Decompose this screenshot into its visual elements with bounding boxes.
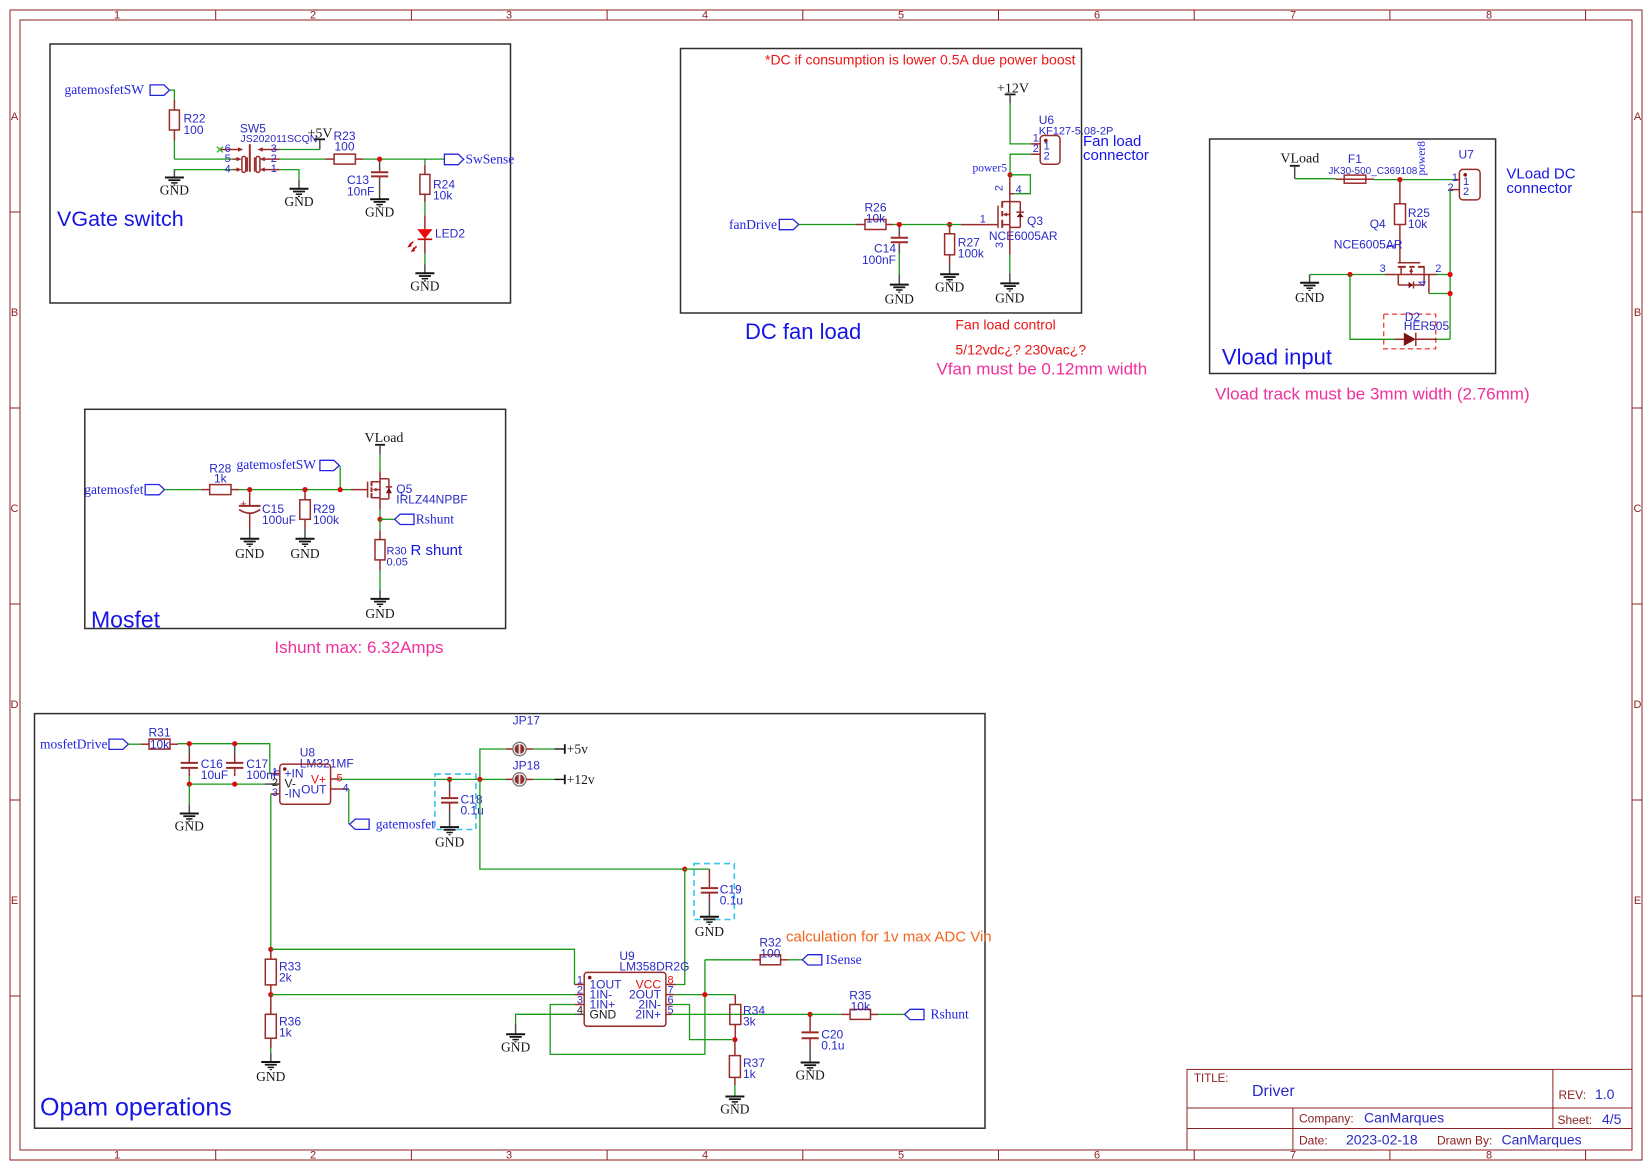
svg-text:TITLE:: TITLE:: [1194, 1073, 1229, 1085]
wire ISense row to R32: [705, 959, 752, 961]
svg-text:2: 2: [1044, 151, 1050, 163]
hierarchical label gatemosfet: [84, 482, 164, 497]
resistor R36: [265, 1014, 301, 1039]
svg-text:3: 3: [1380, 263, 1386, 275]
wire gatemosfetSW to R22: [170, 90, 175, 100]
junction right upper: [1448, 272, 1453, 277]
svg-text:Rshunt: Rshunt: [931, 1007, 970, 1022]
wire junction to R33: [270, 949, 272, 959]
hierarchical label gatemosfetSW (SW feed): [237, 457, 340, 472]
resistor R26: [864, 201, 886, 230]
svg-text:LED2: LED2: [435, 227, 465, 241]
power +12v: [554, 772, 595, 787]
svg-text:A: A: [11, 111, 19, 123]
svg-text:E: E: [11, 895, 18, 907]
wire U7 pin 2 down to D2: [1449, 190, 1451, 340]
wire Q4 drain to U7 net: [1424, 274, 1437, 276]
svg-text:GND: GND: [935, 279, 964, 294]
svg-text:Mosfet: Mosfet: [91, 607, 161, 633]
ground under C15: [235, 529, 264, 561]
junction F1/R25: [1397, 177, 1402, 182]
pin 2 stub+arrow: [263, 158, 280, 160]
svg-text:fanDrive: fanDrive: [729, 217, 777, 232]
wire junction to R37: [734, 1040, 736, 1056]
svg-text:4: 4: [1417, 280, 1429, 286]
svg-text:10k: 10k: [1408, 217, 1428, 231]
junction Rshunt: [377, 517, 382, 522]
svg-text:GND: GND: [175, 819, 204, 834]
svg-text:8: 8: [1486, 1150, 1492, 1162]
wire C18 to JP18 and JP17 riser: [441, 749, 506, 779]
wire R27 to GND: [949, 255, 951, 264]
svg-text:GND: GND: [365, 204, 394, 219]
pin 4 stub+arrow: [233, 169, 239, 171]
hierarchical label Rshunt (opam): [905, 1007, 969, 1022]
wire C19 top from junction: [685, 868, 710, 870]
svg-text:CanMarques: CanMarques: [1364, 1110, 1444, 1126]
wire fanDrive to R26: [799, 224, 857, 226]
svg-text:3: 3: [994, 242, 1006, 248]
ground under SW5 pin 1: [284, 180, 313, 209]
wire pin4 loop: [1010, 175, 1030, 194]
svg-text:gatemosfet: gatemosfet: [376, 816, 435, 831]
wire R34 top from 2OUT node: [734, 994, 737, 996]
svg-text:4/5: 4/5: [1602, 1111, 1622, 1127]
wire junction to U9 1OUT: [271, 949, 575, 984]
junction power5: [1008, 172, 1013, 177]
svg-text:DC fan load: DC fan load: [745, 319, 861, 344]
svg-text:1: 1: [114, 10, 120, 22]
wire R29 to GND: [304, 519, 306, 529]
svg-text:Drawn By:: Drawn By:: [1437, 1134, 1492, 1148]
capacitor C16: [181, 746, 228, 783]
wire junction to R25: [1399, 180, 1401, 204]
junction above R33: [268, 947, 273, 952]
svg-text:GND: GND: [235, 546, 264, 561]
svg-text:B: B: [1634, 307, 1641, 319]
pin 1 stub+arrow: [263, 169, 280, 171]
svg-text:7: 7: [1290, 10, 1296, 22]
no-connect X on pin 6: [217, 147, 223, 153]
junction at C19: [682, 867, 687, 872]
title block: [1187, 1069, 1632, 1150]
ground under Q3: [995, 273, 1024, 305]
fuse F1: [1328, 152, 1417, 183]
svg-text:D: D: [1634, 699, 1642, 711]
svg-text:OUT: OUT: [301, 783, 327, 797]
svg-text:calculation for 1v max ADC Vin: calculation for 1v max ADC Vin: [786, 929, 992, 946]
wire F1 to U7 pin 1: [1366, 178, 1374, 180]
svg-text:NCE6005AR: NCE6005AR: [989, 229, 1058, 243]
svg-text:VLoad: VLoad: [1280, 151, 1319, 166]
svg-text:C: C: [11, 503, 19, 515]
junction V- row right: [232, 782, 237, 787]
svg-text:CanMarques: CanMarques: [1502, 1132, 1582, 1148]
wire junction to Q3 gate: [941, 224, 961, 226]
wire R24 to LED2: [424, 194, 426, 202]
wire R31 to U8 +IN: [170, 743, 178, 745]
svg-text:2023-02-18: 2023-02-18: [1346, 1132, 1418, 1148]
connector U6: [1031, 113, 1114, 164]
svg-text:-IN: -IN: [285, 787, 301, 801]
switch SW5: [217, 122, 317, 176]
svg-text:100k: 100k: [958, 247, 985, 261]
resistor R28: [209, 462, 231, 495]
svg-text:GND: GND: [695, 924, 724, 939]
ground under C18: [435, 811, 464, 850]
svg-text:10k: 10k: [851, 999, 871, 1013]
resistor R29: [300, 500, 340, 527]
resistor R33: [265, 959, 301, 985]
resistor R37: [729, 1056, 765, 1081]
svg-text:4: 4: [1016, 184, 1022, 196]
svg-text:3: 3: [506, 1150, 512, 1162]
svg-text:4: 4: [225, 163, 231, 175]
power +5v: [554, 741, 588, 756]
svg-text:LM358DR2G: LM358DR2G: [619, 960, 689, 974]
svg-text:Date:: Date:: [1299, 1134, 1328, 1148]
hierarchical label ISense: [802, 952, 861, 967]
jumper JP17: [513, 713, 541, 755]
svg-text:2k: 2k: [279, 971, 293, 985]
svg-text:4: 4: [702, 1150, 708, 1162]
svg-text:GND: GND: [795, 1068, 824, 1083]
svg-text:100: 100: [760, 946, 780, 960]
capacitor C14: [862, 227, 908, 268]
svg-text:10k: 10k: [150, 737, 170, 751]
NOTES: [274, 52, 1575, 946]
wire junction to R35: [810, 1013, 841, 1015]
wire Q4 pin4 to lower junction: [1428, 275, 1430, 294]
svg-text:10uF: 10uF: [201, 768, 228, 782]
svg-text:REV:: REV:: [1559, 1088, 1587, 1102]
resistor R32: [759, 936, 781, 965]
ground under C13: [365, 179, 394, 219]
svg-text:Vfan must be 0.12mm width: Vfan must be 0.12mm width: [937, 360, 1148, 379]
wire U9 2IN+ to C20 junction: [672, 1013, 810, 1015]
resistor R34: [730, 1003, 766, 1028]
hierarchical label SwSense: [444, 152, 514, 167]
svg-text:1: 1: [1385, 243, 1397, 249]
ground at U9 pin 4: [501, 1014, 575, 1054]
junction 2OUT: [702, 992, 707, 997]
svg-text:+12v: +12v: [567, 772, 595, 787]
junction at C14: [897, 222, 902, 227]
svg-text:JP18: JP18: [513, 759, 541, 773]
connector U7: [1447, 147, 1480, 200]
svg-text:A: A: [1634, 111, 1642, 123]
svg-text:+: +: [240, 499, 246, 511]
wire R23 to SwSense: [355, 158, 363, 160]
wire R33 to R36: [270, 985, 272, 995]
svg-text:R shunt: R shunt: [411, 542, 464, 559]
svg-text:GND: GND: [501, 1039, 530, 1054]
op-amp U8: [271, 746, 354, 805]
svg-text:VLoad: VLoad: [365, 431, 404, 446]
wire R25 to Q4 gate: [1399, 225, 1401, 263]
power +12V: [997, 82, 1029, 104]
svg-text:connector: connector: [1506, 180, 1572, 197]
resistor R35: [849, 989, 871, 1020]
svg-text:GND: GND: [590, 1008, 617, 1022]
svg-text:2: 2: [1033, 143, 1039, 155]
svg-text:E: E: [1634, 895, 1641, 907]
wire junction to R27: [949, 225, 951, 234]
svg-text:2: 2: [1435, 263, 1441, 275]
junction V- row left: [187, 782, 192, 787]
svg-text:8: 8: [1486, 10, 1492, 22]
capacitor C19 in dashed box: [694, 864, 743, 920]
svg-text:LM321MF: LM321MF: [300, 756, 354, 770]
svg-text:2: 2: [994, 185, 1006, 191]
wire U9 2IN- loop to R34 bottom: [672, 1005, 732, 1040]
svg-text:10nF: 10nF: [347, 185, 374, 199]
hierarchical label gatemosfet (output): [350, 816, 436, 831]
ground: [160, 170, 189, 198]
ground under C14: [885, 245, 914, 307]
svg-text:2IN+: 2IN+: [635, 1008, 661, 1022]
junction GND side: [1347, 272, 1352, 277]
resistor R31: [148, 726, 170, 752]
svg-text:GND: GND: [720, 1102, 749, 1117]
svg-text:7: 7: [1290, 1150, 1296, 1162]
capacitor C17: [226, 746, 280, 783]
svg-text:GND: GND: [1295, 290, 1324, 305]
transistor Q4: [1398, 263, 1425, 289]
junction between R33/R36: [268, 992, 273, 997]
svg-text:Q3: Q3: [1027, 214, 1043, 228]
svg-text:power8: power8: [1416, 141, 1428, 176]
pin 6 arrow: [221, 149, 240, 151]
svg-text:JK30-500_C369108: JK30-500_C369108: [1328, 166, 1417, 177]
transistor Q3: [989, 184, 1058, 248]
LED LED2: [407, 227, 465, 253]
svg-text:100uF: 100uF: [262, 513, 296, 527]
svg-text:GND: GND: [160, 183, 189, 198]
svg-text:gatemosfetSW: gatemosfetSW: [65, 82, 145, 97]
wire SW5 pin 3 to +5V: [280, 149, 320, 151]
wire R32 to ISense: [781, 959, 788, 961]
svg-text:connector: connector: [1083, 147, 1149, 164]
hierarchical label gatemosfetSW: [65, 82, 170, 97]
wire Q3 source to GND: [1009, 227, 1011, 255]
wire V+ net down to VCC rail: [480, 779, 685, 869]
svg-text:4: 4: [343, 782, 349, 794]
junction under R34: [732, 1037, 737, 1042]
wire power5 to Q3 drain: [1009, 175, 1011, 202]
ground under C19: [695, 901, 724, 939]
svg-text:GND: GND: [995, 290, 1024, 305]
svg-text:HER505: HER505: [1404, 319, 1450, 333]
wire R30 to GND: [379, 560, 381, 571]
svg-text:10k: 10k: [433, 189, 453, 203]
wire GND junction down to D2 anode: [1350, 275, 1395, 340]
svg-text:B: B: [11, 307, 18, 319]
junction at gate: [338, 487, 343, 492]
wire R37 to GND: [734, 1077, 736, 1085]
resistor R22: [169, 110, 205, 137]
junction at C17: [232, 741, 237, 746]
svg-text:Fan load control: Fan load control: [955, 317, 1055, 333]
resistor R30: [375, 540, 408, 569]
capacitor C13: [347, 161, 388, 199]
svg-text:1k: 1k: [279, 1026, 293, 1040]
svg-text:JS202011SCQN: JS202011SCQN: [241, 133, 318, 145]
svg-text:Company:: Company:: [1299, 1112, 1354, 1126]
svg-text:U7: U7: [1459, 147, 1475, 161]
op-amp U9: [575, 949, 689, 1026]
svg-text:D: D: [11, 699, 19, 711]
svg-text:Driver: Driver: [1252, 1083, 1295, 1100]
wire VLoad to Q5 drain: [379, 454, 381, 471]
svg-text:+5v: +5v: [567, 741, 588, 756]
wire LED2 to GND: [424, 239, 426, 253]
ground under LED2: [410, 264, 439, 293]
wire SW5 pin 2 to R23: [280, 158, 326, 160]
svg-text:Ishunt max: 6.32Amps: Ishunt max: 6.32Amps: [274, 638, 443, 657]
wire gatemosfetSW down to gate net: [339, 466, 341, 490]
svg-text:4: 4: [577, 1004, 583, 1016]
junction at R29: [302, 487, 307, 492]
right contact bracket: [256, 156, 260, 172]
resistor R25: [1395, 204, 1431, 231]
svg-text:Rshunt: Rshunt: [416, 512, 455, 527]
junction at C16: [187, 741, 192, 746]
junction at C18: [447, 777, 452, 782]
pin 5 stub+arrow: [233, 158, 239, 160]
ground under R30: [365, 590, 394, 621]
svg-text:gatemosfet: gatemosfet: [84, 482, 143, 497]
svg-text:1k: 1k: [743, 1067, 757, 1081]
wire R26 to junction: [886, 224, 893, 226]
wire junction to R24: [424, 159, 426, 165]
svg-text:+5V: +5V: [307, 127, 332, 142]
svg-text:1: 1: [114, 1150, 120, 1162]
ground under R37: [720, 1096, 749, 1116]
junction right lower: [1448, 291, 1453, 296]
svg-text:0.05: 0.05: [387, 557, 408, 569]
svg-text:GND: GND: [284, 194, 313, 209]
power +5V: [307, 127, 332, 150]
wire R34 to junction: [734, 1025, 736, 1040]
ground under C20: [795, 1046, 824, 1083]
svg-text:2: 2: [310, 10, 316, 22]
svg-text:2: 2: [1463, 186, 1469, 198]
junction at C15: [247, 487, 252, 492]
wire U8 -IN down to R33: [270, 794, 272, 950]
junction at C13: [377, 157, 382, 162]
svg-text:5: 5: [898, 1150, 904, 1162]
actuator bar: [249, 144, 251, 172]
hierarchical label Rshunt: [380, 512, 454, 527]
ground under R27: [935, 264, 964, 294]
svg-text:F1: F1: [1348, 152, 1362, 166]
svg-text:4: 4: [702, 10, 708, 22]
svg-text:gatemosfetSW: gatemosfetSW: [237, 457, 317, 472]
svg-text:3: 3: [506, 10, 512, 22]
svg-text:GND: GND: [290, 546, 319, 561]
wire U6 pin 2 to power5 junction: [1010, 154, 1031, 175]
wire junction to R29: [304, 490, 306, 500]
svg-text:0.1u: 0.1u: [821, 1039, 844, 1053]
wire mosfetDrive to R31: [128, 743, 141, 745]
wire gatemosfet to R28: [165, 489, 202, 491]
wire +12V to U6 pin 1: [1010, 104, 1031, 144]
diode D2: [1384, 310, 1450, 349]
wire junction to GND: [188, 784, 190, 804]
wire R35 to Rshunt: [871, 1013, 879, 1015]
capacitor C18 in dashed box: [435, 774, 484, 829]
ground under C16: [175, 804, 204, 833]
svg-text:IRLZ44NPBF: IRLZ44NPBF: [396, 493, 467, 507]
wire junction to U9 1IN-: [271, 994, 575, 996]
svg-text:5: 5: [898, 10, 904, 22]
junction at R27: [947, 222, 952, 227]
svg-text:3: 3: [272, 787, 278, 799]
wire SW5 pin 1 to GND: [280, 170, 299, 180]
svg-text:1.0: 1.0: [1595, 1086, 1615, 1102]
svg-text:0.1u: 0.1u: [720, 894, 743, 908]
wire D2 cathode to right vertical: [1437, 338, 1450, 340]
transistor Q5: [368, 472, 468, 507]
svg-text:power5: power5: [973, 162, 1008, 174]
ground at Q4: [1295, 275, 1335, 305]
wire JP17 to +5v: [526, 748, 533, 750]
capacitor C20: [802, 1014, 845, 1052]
power VLoad at Q5: [365, 431, 404, 454]
wire JP18 to +12v: [526, 778, 533, 780]
wire Q4 source to GND junction: [1385, 274, 1398, 276]
svg-text:GND: GND: [365, 606, 394, 621]
svg-text:3k: 3k: [743, 1014, 757, 1028]
svg-text:VGate switch: VGate switch: [57, 207, 184, 231]
hierarchical label mosfetDrive: [40, 737, 128, 752]
wire U8 OUT down to gatemosfet: [348, 789, 350, 824]
ground under R36: [256, 1053, 285, 1084]
wire junction to R30: [379, 519, 381, 530]
svg-text:Opam operations: Opam operations: [40, 1093, 232, 1121]
left contact bracket: [242, 156, 246, 172]
wire C16/C17 bottoms to U8 V-: [189, 776, 265, 784]
wire junction to R36: [270, 995, 272, 1015]
svg-text:GND: GND: [256, 1069, 285, 1084]
junction at C20: [808, 1012, 813, 1017]
svg-text:1: 1: [271, 163, 277, 175]
ground under R29: [290, 529, 319, 561]
svg-text:100: 100: [334, 139, 354, 153]
resistor R24: [420, 174, 455, 202]
svg-text:mosfetDrive: mosfetDrive: [40, 737, 107, 752]
wire R36 to GND: [270, 1038, 272, 1048]
svg-text:100k: 100k: [313, 513, 340, 527]
wire R28 to Q5 gate: [231, 489, 239, 491]
svg-text:GND: GND: [435, 834, 464, 849]
svg-text:GND: GND: [885, 292, 914, 307]
wire Q5 source to Rshunt junction: [379, 498, 381, 510]
wire 2OUT to junction, ISense riser: [674, 960, 734, 1055]
svg-text:Q4: Q4: [1370, 217, 1386, 231]
junction at JP riser: [477, 777, 482, 782]
svg-text:1k: 1k: [214, 472, 228, 486]
svg-text:*DC if consumption is lower 0.: *DC if consumption is lower 0.5A due pow…: [765, 52, 1076, 68]
wire C19 junction down to U9 VCC: [676, 869, 685, 984]
wire U8 V+ to C18: [340, 778, 441, 780]
svg-text:Vload input: Vload input: [1222, 345, 1332, 370]
svg-text:100: 100: [184, 123, 204, 137]
svg-text:C: C: [1634, 503, 1642, 515]
pin 3 arrow: [261, 149, 280, 151]
svg-text:GND: GND: [410, 278, 439, 293]
